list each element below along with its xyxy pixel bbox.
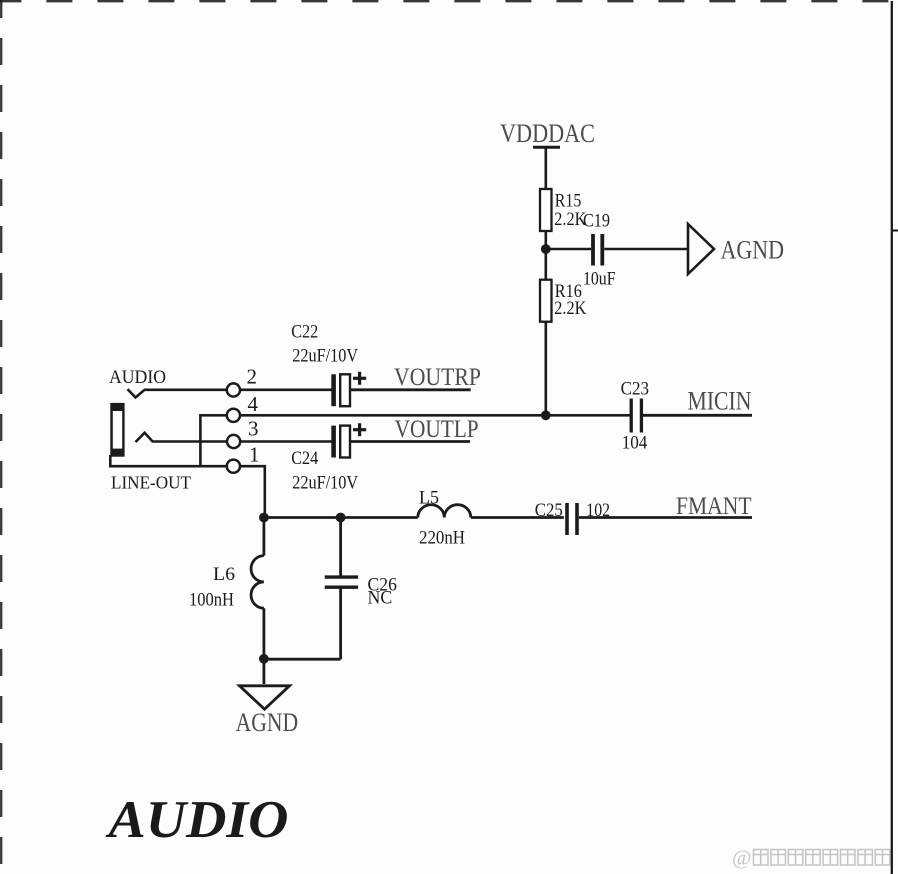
ground AGND (right arrow symbol) <box>688 224 784 274</box>
svg-text:104: 104 <box>622 433 648 454</box>
svg-text:VOUTLP: VOUTLP <box>395 416 479 443</box>
wire node to C19 <box>546 248 591 251</box>
capacitor C23 104 <box>621 379 649 454</box>
svg-text:C24: C24 <box>291 448 318 469</box>
node junction L6 / C26 bottom <box>259 654 269 664</box>
wire pin4 row: left corner to C23 <box>200 415 631 466</box>
inductor L6 100nH <box>189 556 264 611</box>
wire FMANT row with L5 <box>264 516 752 519</box>
wire pin1/sleeve row jack to corner down to L-network <box>110 455 264 518</box>
svg-text:C25: C25 <box>535 500 563 521</box>
svg-text:MICIN: MICIN <box>688 387 752 416</box>
svg-text:100nH: 100nH <box>189 590 234 611</box>
wire C22 to VOUTRP stub <box>350 388 471 391</box>
capacitor C22 22uF/10V polarized <box>291 322 366 407</box>
svg-text:22uF/10V: 22uF/10V <box>292 346 358 367</box>
inductor L5 220nH <box>418 488 471 549</box>
wire L6 branch vertical <box>262 518 265 685</box>
capacitor C25 102 <box>535 500 610 535</box>
pin 4 <box>227 392 259 422</box>
svg-text:220nH: 220nH <box>419 528 465 549</box>
svg-text:NC: NC <box>368 588 393 609</box>
svg-text:C23: C23 <box>621 379 649 400</box>
watermark <box>732 846 890 870</box>
svg-text:@: @ <box>732 846 751 870</box>
svg-text:AGND: AGND <box>236 708 299 737</box>
pin 1 <box>227 442 260 473</box>
svg-text:1: 1 <box>249 442 260 466</box>
svg-text:LINE-OUT: LINE-OUT <box>111 473 191 493</box>
wire C24 to VOUTLP stub <box>350 440 470 443</box>
wire C26 branch vertical <box>264 518 341 660</box>
wire C23 to MICIN stub <box>643 414 752 417</box>
svg-text:L5: L5 <box>419 488 439 509</box>
ground AGND bottom triangle <box>236 686 299 737</box>
node junction R15/R16/C19 <box>541 244 551 254</box>
svg-text:C19: C19 <box>583 211 610 232</box>
pin 3 <box>227 417 259 448</box>
svg-text:3: 3 <box>248 417 259 441</box>
svg-text:102: 102 <box>586 500 610 521</box>
node junction pin1 row / L6 / L5 <box>259 513 269 523</box>
svg-text:C22: C22 <box>291 322 318 343</box>
wire pin3 tip contact and row to C24 <box>136 433 332 442</box>
svg-text:AGND: AGND <box>721 236 785 265</box>
svg-text:FMANT: FMANT <box>676 493 752 520</box>
svg-text:AUDIO: AUDIO <box>109 367 166 388</box>
net VDDDAC power symbol <box>500 119 595 148</box>
svg-text:4: 4 <box>248 392 259 416</box>
svg-text:22uF/10V: 22uF/10V <box>292 473 358 494</box>
svg-text:VOUTRP: VOUTRP <box>394 364 481 391</box>
svg-text:VDDDAC: VDDDAC <box>500 119 595 148</box>
node junction L5 / C26 <box>336 513 346 523</box>
svg-text:2.2K: 2.2K <box>554 298 586 319</box>
connector J? audio jack LINE-OUT body <box>109 367 191 493</box>
svg-text:2.2K: 2.2K <box>554 209 586 230</box>
wire C19 to AGND symbol <box>604 248 687 251</box>
capacitor C26 NC <box>325 574 397 608</box>
node junction pin4 row / R16 <box>541 410 551 420</box>
svg-text:2: 2 <box>247 364 258 388</box>
svg-text:AUDIO: AUDIO <box>105 791 288 849</box>
capacitor C24 22uF/10V polarized <box>291 423 366 494</box>
wire VDDDAC to R15/R16 column down to MICIN row <box>544 147 547 415</box>
capacitor C19 10uF <box>583 211 616 290</box>
resistor R16 <box>540 280 587 322</box>
wire pin2 tip contact and row to C22 <box>128 389 332 397</box>
pin 2 <box>227 364 257 396</box>
svg-text:L6: L6 <box>213 564 235 585</box>
svg-text:10uF: 10uF <box>583 269 616 290</box>
resistor R15 <box>540 189 587 231</box>
